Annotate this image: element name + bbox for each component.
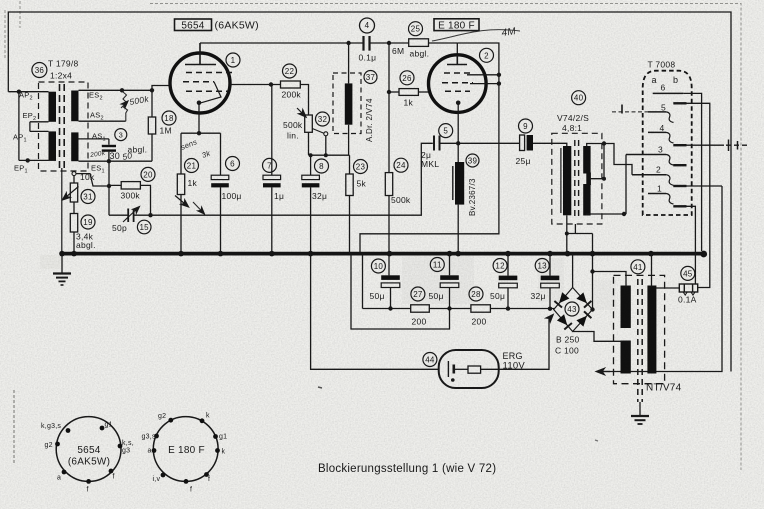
bridge bottom lead to NT primary tap (573, 332, 622, 342)
ERG internal resistor (454, 368, 468, 370)
capacitor C4 0.1u (364, 36, 370, 51)
wire ground bus (62, 252, 704, 256)
wire border loop (top/left/right frame) (8, 12, 731, 372)
potentiometer R31 10k (70, 183, 77, 202)
electrolytic capacitor C11 50u (449, 254, 451, 276)
wire node row y155 (309, 154, 350, 156)
wire heater rail (363, 254, 411, 309)
wire bus to ERG (311, 254, 439, 370)
T40 secondary joints (586, 173, 591, 186)
V2 g2 wire (467, 74, 499, 76)
inductor L39 Bv.2367/3 (452, 166, 454, 200)
transformer core lines (59, 84, 61, 170)
wire AP2 (8, 91, 48, 93)
transformer T179/8 designator circle 36 (32, 63, 47, 78)
T40 core (574, 140, 576, 218)
resistor R26 1k grid stopper (389, 91, 399, 93)
wire ES2 grid line to tube (79, 86, 172, 91)
ERG internal battery (447, 361, 449, 377)
transformer core/shield ground lead (61, 168, 63, 254)
V1 grids (186, 72, 233, 74)
wire cathode tee (181, 132, 221, 134)
wire row6 to bus end (683, 93, 701, 251)
fuse F45 0.1A (681, 266, 695, 280)
resistor R19 3,4k (70, 214, 77, 233)
wire anode rail to right vertical (360, 43, 499, 254)
T40 secondary winding lower (583, 184, 590, 216)
NT primary winding lower (621, 341, 631, 374)
node ES2-pot (120, 88, 124, 92)
faint scan smudges (402, 256, 474, 304)
electrolytic capacitor C12 50u (507, 254, 509, 276)
electrolytic capacitor C13 32u (549, 254, 551, 276)
NT primary winding upper (621, 286, 631, 329)
resistor R18 1M (148, 117, 155, 134)
capacitor C3 leads (108, 139, 110, 161)
wire ES1 bottom (79, 160, 153, 162)
resistor R28 200 (471, 305, 491, 312)
resistor R25 6M abgl (409, 39, 429, 47)
tube V2 envelope (429, 55, 487, 113)
handwritten 4M note and stroke (432, 30, 520, 41)
coupling capacitor C5 2u MKL (434, 136, 440, 151)
V2 cathode (456, 101, 461, 106)
handwritten 500k pot zigzag (121, 92, 128, 122)
wire input vertical (18, 92, 20, 161)
transformer NT/V74 designator 41 (631, 260, 645, 274)
bridge right vertex node (590, 307, 594, 311)
V1 cathode (201, 82, 221, 103)
wire pot31 to R19 (73, 202, 75, 214)
V1 anode (185, 43, 216, 65)
node EP1 (26, 158, 30, 162)
node ES2-1M (150, 88, 154, 92)
V2 anode (447, 55, 467, 65)
node AP2 (17, 90, 21, 94)
ERG44 envelope (439, 350, 499, 388)
primary winding upper (AP2-EP2) (49, 92, 57, 122)
node choke top (346, 41, 350, 45)
stray mark (318, 387, 322, 388)
wire pot31 wiper to node (76, 174, 110, 186)
T40 secondary bottom lead (587, 155, 626, 216)
socket V2 E180F (153, 417, 218, 482)
T40 primary winding (563, 146, 571, 215)
electrolytic capacitor C6 100u (220, 133, 222, 175)
wire loop below rail (351, 254, 450, 329)
wire cathode node to C9 (458, 142, 519, 144)
V2 g3 wire (470, 83, 499, 85)
resistor R23 5k (349, 155, 351, 174)
secondary winding lower (AS1-ES1) (71, 132, 78, 161)
potentiometer R32 500k lin (305, 115, 313, 132)
node ES1-cap (107, 159, 111, 163)
wire row1b down to fuse (687, 206, 696, 284)
NT primary top lead (593, 272, 627, 287)
wire AP1 (30, 130, 49, 132)
socket V1 5654 (56, 417, 121, 482)
wire V1 anode rail (200, 42, 363, 44)
wire long feedback line to C5 (151, 143, 433, 215)
row 5 external stub left (612, 111, 648, 113)
NT core (637, 279, 639, 402)
resistor R22 200k (230, 84, 281, 86)
NT core ground (631, 402, 649, 424)
arrow external bottom (597, 371, 610, 373)
bridge top lead to bus (572, 254, 574, 288)
wire row2b loop down (687, 185, 723, 187)
primary winding lower (AP1-EP1) (49, 131, 57, 161)
tube label box E180F (434, 19, 479, 31)
resistor R21 1k cathode (180, 133, 182, 174)
trimmer capacitor C3 plates (102, 145, 116, 147)
tube V1 envelope (170, 53, 230, 113)
bridge rectifier B43 B250 C100 (554, 288, 593, 332)
wire link EP2-AP1 (29, 122, 31, 132)
electrolytic capacitor C8 32u (310, 155, 312, 175)
resistor R20 300k (109, 185, 151, 215)
bus junction dots (59, 251, 707, 258)
resistor R24 500k (388, 43, 390, 173)
electrolytic capacitor C7 1u (271, 85, 273, 176)
trimmer capacitor C15 50p (109, 214, 151, 216)
node R25 left (387, 41, 391, 45)
NT/V74 dashed box (614, 275, 665, 383)
R21 wiper arrows (175, 196, 188, 207)
V2 grids (444, 72, 471, 74)
wire AS2 (79, 120, 126, 122)
wire EP2 (30, 121, 49, 123)
T40 secondary top lead (587, 144, 632, 175)
resistor R27 200 (411, 305, 430, 312)
wire ERG to bridge input (499, 319, 549, 369)
NT secondary winding (647, 286, 656, 374)
wire row5b to fuse right (687, 103, 710, 287)
wire fuse left to NT secondary (656, 287, 680, 289)
wire 1M branch vertical (151, 90, 153, 117)
ground symbol (53, 254, 71, 285)
wire row4b external page connector (687, 144, 725, 146)
T40 shield lead (567, 224, 593, 310)
transformer T40 dashed box (552, 133, 602, 224)
transformer T36 shield dashed box (39, 82, 89, 171)
choke L37 A.Dr.2/V74 (333, 73, 361, 134)
wire bottom-right loop to arrow (597, 186, 722, 372)
T40 primary bottom lead to bus (566, 215, 568, 253)
tube label box 5654 (175, 19, 212, 31)
electrolytic capacitor C10 50u (381, 275, 400, 280)
electrolytic capacitor C9 25u (520, 135, 525, 151)
T40 secondary mid tap (590, 144, 604, 179)
secondary winding upper (ES2-AS2) (71, 91, 78, 122)
T7008 dashed outline (643, 71, 692, 215)
NT secondary top lead to bus (651, 254, 653, 287)
wire EP1 (19, 159, 49, 161)
T40 secondary winding upper (583, 146, 590, 174)
designator circle 3 (115, 129, 127, 141)
wire node vertical x109 (108, 161, 110, 215)
wire AS1 (79, 138, 109, 140)
